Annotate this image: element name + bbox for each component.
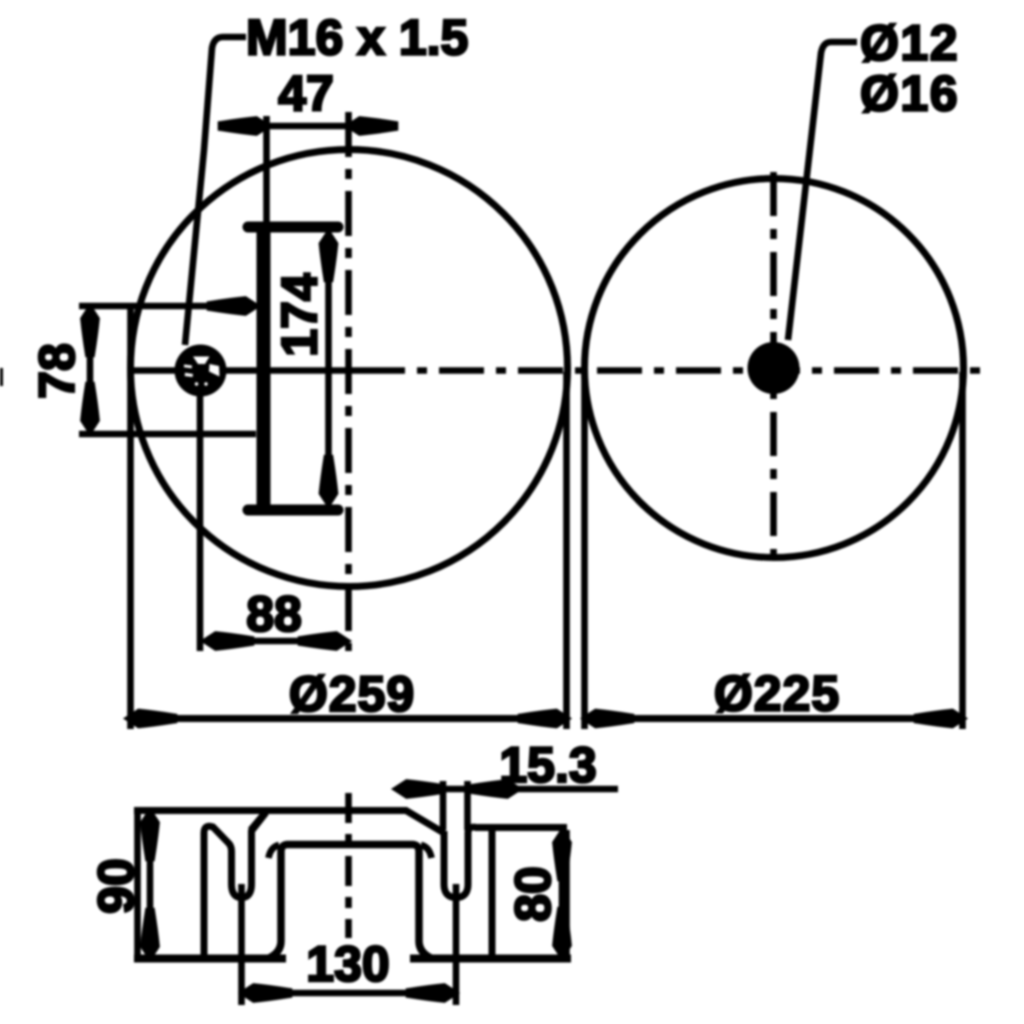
svg-text:47: 47: [278, 66, 334, 122]
svg-text:Ø12: Ø12: [860, 15, 959, 71]
130 dim line: [244, 990, 454, 997]
15.3 extension lines: [440, 781, 447, 830]
bracket bottom cap: [248, 505, 338, 516]
plate top edge: [79, 303, 252, 310]
svg-text:80: 80: [505, 866, 561, 922]
center hole dot right circle: [748, 342, 800, 394]
horizontal center line: [132, 367, 360, 374]
vertical center line right circle: [770, 172, 777, 562]
profile right wall: [563, 830, 570, 958]
svg-text:M16 x 1.5: M16 x 1.5: [246, 10, 468, 66]
svg-text:Ø259: Ø259: [289, 666, 415, 722]
profile vertical center line: [345, 793, 352, 938]
plateau left hook: [269, 845, 280, 858]
15.3 dim line: [396, 786, 618, 793]
svg-text:90: 90: [88, 858, 144, 914]
profile left wall: [134, 808, 141, 958]
extension line between circles right: [581, 372, 588, 729]
bracket web (thick bar): [257, 231, 271, 506]
arrowhead on plate top pointing right: [210, 300, 255, 313]
M16 leader line: [185, 37, 246, 345]
profile inner right wall: [489, 828, 496, 958]
left groove center stub: [238, 884, 245, 1005]
78 dim line: [87, 311, 94, 428]
svg-text:88: 88: [246, 586, 302, 642]
90 dim line: [147, 813, 154, 956]
svg-text:174: 174: [272, 273, 328, 357]
vertical center line left circle: [345, 112, 352, 651]
threaded hole symbol M16: [175, 345, 227, 397]
right groove: [444, 827, 477, 897]
profile bottom line left part: [134, 955, 286, 963]
svg-text:78: 78: [29, 343, 85, 399]
right circle (plan view Ø225): [585, 179, 964, 558]
svg-text:15.3: 15.3: [499, 737, 596, 793]
left groove: [204, 813, 266, 959]
profile top right surface: [475, 824, 567, 831]
hole vertical line down to 88 dim: [197, 394, 204, 651]
plate left edge / Ø259 left extension line: [127, 306, 134, 729]
Ø259 dim line: [128, 715, 566, 722]
svg-text:130: 130: [306, 936, 389, 992]
bracket top cap: [248, 222, 338, 233]
47 dim line: [224, 123, 396, 130]
plate bottom edge: [79, 431, 256, 438]
left circle (plan view Ø259): [131, 150, 568, 587]
Ø225 dim line: [586, 715, 962, 722]
Ø12/Ø16 leader line: [788, 42, 857, 340]
88 dim line: [206, 638, 346, 645]
right groove center stub: [453, 884, 460, 1005]
profile bottom line right part: [410, 955, 571, 963]
80 dim line: [559, 833, 566, 955]
diagonal branch into left groove: [251, 812, 266, 830]
center plateau: [269, 845, 431, 959]
47 dim extension line: [263, 116, 270, 228]
svg-text:Ø225: Ø225: [714, 666, 840, 722]
profile top surface line: [134, 811, 444, 834]
174 dim line: [325, 236, 332, 501]
Ø225 right extension line: [959, 372, 966, 729]
edge artifact left border: [0, 368, 3, 386]
plateau right hook: [421, 845, 432, 858]
extension line between circles left: [563, 372, 570, 729]
svg-text:Ø16: Ø16: [860, 66, 959, 122]
